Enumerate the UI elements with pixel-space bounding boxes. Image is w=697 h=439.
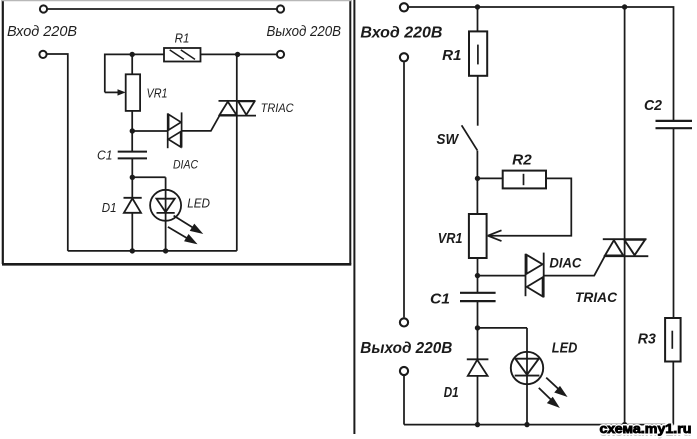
svg-text:Вход 220В: Вход 220В [360, 24, 442, 41]
svg-text:VR1: VR1 [438, 230, 463, 247]
svg-text:C1: C1 [430, 290, 450, 307]
svg-text:SW: SW [437, 131, 460, 148]
svg-text:D1: D1 [102, 200, 117, 215]
svg-text:LED: LED [552, 340, 578, 357]
svg-text:схема.my1.ru: схема.my1.ru [600, 421, 692, 436]
svg-text:TRIAC: TRIAC [575, 289, 618, 305]
svg-text:R2: R2 [512, 152, 532, 169]
svg-text:DIAC: DIAC [173, 158, 198, 172]
svg-text:LED: LED [187, 196, 210, 211]
svg-text:C2: C2 [644, 97, 663, 114]
svg-text:D1: D1 [444, 384, 459, 401]
svg-text:Выход 220В: Выход 220В [360, 340, 452, 357]
svg-text:C1: C1 [97, 148, 113, 163]
svg-text:R3: R3 [638, 330, 657, 347]
svg-text:TRIAC: TRIAC [261, 101, 294, 115]
svg-text:DIAC: DIAC [549, 255, 582, 271]
svg-text:Вход 220В: Вход 220В [7, 23, 77, 40]
svg-text:Выход 220В: Выход 220В [267, 23, 342, 40]
svg-text:VR1: VR1 [147, 85, 168, 100]
svg-text:R1: R1 [175, 31, 190, 46]
svg-text:R1: R1 [442, 47, 461, 64]
